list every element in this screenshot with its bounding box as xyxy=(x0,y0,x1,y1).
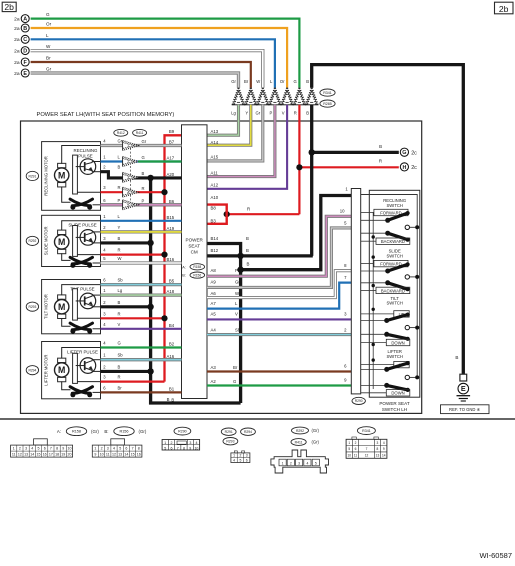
svg-text:16: 16 xyxy=(43,453,47,457)
svg-text:2c: 2c xyxy=(411,150,417,156)
wire Lg from joint 1 to pin A13 xyxy=(207,105,239,135)
common circle xyxy=(405,325,409,329)
svg-text:G: G xyxy=(46,12,50,17)
svg-text:R158: R158 xyxy=(72,430,81,434)
pin 2 wire Y of SLIDE MOTOR xyxy=(101,230,182,233)
wire R branch to terminal H xyxy=(299,166,398,168)
svg-text:W: W xyxy=(46,44,51,49)
wire B to switch pin 1 xyxy=(241,196,352,270)
motor bottom rail xyxy=(62,381,71,389)
svg-text:R292: R292 xyxy=(296,429,304,433)
joint connector R412/R411 ovals xyxy=(114,129,128,136)
svg-text:A20: A20 xyxy=(167,172,175,177)
feed line to DOWN contact xyxy=(361,342,387,344)
pulse sensor bar xyxy=(73,353,78,383)
svg-text:R156: R156 xyxy=(119,430,128,434)
svg-text:5: 5 xyxy=(315,461,317,465)
svg-text:RECLINING MOTOR: RECLINING MOTOR xyxy=(44,156,49,195)
pin 4 wire Gr of RECLINING MOTOR xyxy=(101,144,182,147)
svg-text:9: 9 xyxy=(62,447,64,451)
svg-text:A9: A9 xyxy=(211,280,217,285)
wire B continues to pin A20 xyxy=(151,176,182,179)
svg-text:2: 2 xyxy=(127,160,129,164)
wire W from A6 to switch pin 8 xyxy=(207,271,351,298)
svg-text:3: 3 xyxy=(377,441,379,445)
transistor of SLIDE MOTOR xyxy=(80,230,96,246)
svg-text:16: 16 xyxy=(137,453,141,457)
svg-text:2a: 2a xyxy=(14,71,20,77)
svg-text:H: H xyxy=(402,165,406,171)
commutator symbol xyxy=(70,199,90,206)
contact BACKWARD rect xyxy=(376,238,410,244)
svg-text:G: G xyxy=(294,79,297,84)
svg-text:P: P xyxy=(235,268,238,273)
svg-text:R341: R341 xyxy=(323,91,332,95)
motor top rail xyxy=(62,285,101,296)
ground terminal square xyxy=(460,374,467,381)
lever DOWN xyxy=(361,333,387,335)
pin 6 wire Sb of TILT MOTOR xyxy=(101,283,182,286)
svg-text:3: 3 xyxy=(25,447,27,451)
svg-text:8: 8 xyxy=(56,447,58,451)
R292 housing silhouette xyxy=(271,450,329,473)
svg-text:1: 1 xyxy=(282,461,284,465)
pin 3 wire B of SLIDE MOTOR xyxy=(101,241,151,244)
pin 1 wire Sb of LIFTER MOTOR xyxy=(101,358,182,361)
svg-text:Or: Or xyxy=(46,22,52,27)
svg-text:R291: R291 xyxy=(225,430,233,434)
red loop pins B8 B3 xyxy=(207,205,227,224)
svg-text:B: B xyxy=(306,111,309,116)
svg-text:A11: A11 xyxy=(211,170,219,175)
junction black bus tilt xyxy=(147,304,153,310)
contact UP rect xyxy=(394,361,409,367)
svg-text:7: 7 xyxy=(177,446,179,450)
svg-text:E: E xyxy=(461,384,466,393)
svg-text:4: 4 xyxy=(306,461,308,465)
svg-text:6: 6 xyxy=(246,459,248,463)
pin 1 wire L of RECLINING MOTOR xyxy=(101,160,182,162)
wire L from A7 to switch pin 7 xyxy=(207,283,351,309)
power seat CM box xyxy=(182,125,208,399)
svg-text:7: 7 xyxy=(132,447,134,451)
main box POWER SEAT LH xyxy=(21,121,422,413)
joint connector triangle 4 (reclining) xyxy=(123,187,139,197)
wire Gr from A9 to switch pin 5 xyxy=(207,228,351,288)
svg-text:4: 4 xyxy=(127,191,129,195)
feed line to UP contact xyxy=(361,313,394,315)
rail junction xyxy=(372,255,375,258)
svg-text:10: 10 xyxy=(100,453,104,457)
svg-text:1: 1 xyxy=(164,441,166,445)
svg-text:SWITCH LH: SWITCH LH xyxy=(382,407,407,412)
svg-text:Sb: Sb xyxy=(118,278,124,283)
svg-text:6: 6 xyxy=(355,447,357,451)
svg-text:10: 10 xyxy=(68,447,72,451)
svg-text:10: 10 xyxy=(194,446,198,450)
svg-text:14: 14 xyxy=(30,453,34,457)
svg-text:2b: 2b xyxy=(4,2,14,12)
rail junction xyxy=(372,308,375,311)
svg-text:Lg: Lg xyxy=(231,111,236,116)
svg-text:E: E xyxy=(23,71,27,77)
svg-text:A8: A8 xyxy=(211,268,217,273)
svg-text:V: V xyxy=(118,322,121,327)
svg-text:B9: B9 xyxy=(169,129,175,134)
rail junction xyxy=(372,343,375,346)
page tag 2b top-left xyxy=(2,2,16,12)
rail junction xyxy=(372,358,375,361)
pin 4 wire G of LIFTER MOTOR xyxy=(101,346,182,348)
svg-text:SEAT: SEAT xyxy=(188,244,200,249)
motor bottom rail xyxy=(62,318,71,326)
svg-text:R: R xyxy=(118,375,121,380)
svg-text:13: 13 xyxy=(118,453,122,457)
pin 3 wire R of LIFTER MOTOR xyxy=(101,381,165,383)
svg-text:B:: B: xyxy=(182,274,186,278)
bus junction xyxy=(415,225,419,229)
svg-text:2: 2 xyxy=(355,441,357,445)
connector label R293 (oval) xyxy=(26,302,38,311)
svg-text:4: 4 xyxy=(233,459,235,463)
pin B12 wire B to vertical xyxy=(207,254,313,257)
svg-text:SWITCH: SWITCH xyxy=(386,254,403,259)
svg-text:A:: A: xyxy=(57,429,61,434)
switch common bus from pin 1 xyxy=(361,195,418,379)
svg-text:FORWARD: FORWARD xyxy=(380,262,401,267)
connector label R290 (oval) xyxy=(352,397,365,404)
svg-text:A5: A5 xyxy=(211,312,217,317)
svg-text:12: 12 xyxy=(112,453,116,457)
terminal C (2a) xyxy=(14,35,29,43)
svg-text:V: V xyxy=(235,312,238,317)
svg-text:POWER SEAT LH(WITH SEAT POSITI: POWER SEAT LH(WITH SEAT POSITION MEMORY) xyxy=(37,112,175,118)
joint connector triangle 4 xyxy=(269,88,281,105)
svg-text:19: 19 xyxy=(61,453,65,457)
svg-text:SWITCH: SWITCH xyxy=(386,203,403,208)
svg-text:B: B xyxy=(247,262,250,267)
svg-text:REF. TO GND ④: REF. TO GND ④ xyxy=(449,407,481,412)
svg-text:R411: R411 xyxy=(136,131,144,135)
svg-text:R412: R412 xyxy=(117,131,125,135)
svg-text:SWITCH: SWITCH xyxy=(386,354,403,359)
svg-text:B1: B1 xyxy=(169,387,175,392)
svg-text:M: M xyxy=(58,237,65,247)
svg-text:A: A xyxy=(23,17,27,23)
svg-text:15: 15 xyxy=(37,453,41,457)
svg-text:FORWARD: FORWARD xyxy=(380,210,401,215)
svg-text:2: 2 xyxy=(101,447,103,451)
pin B14 wire B xyxy=(207,244,241,404)
svg-text:14: 14 xyxy=(124,453,128,457)
svg-text:B:: B: xyxy=(104,429,108,434)
svg-text:8: 8 xyxy=(183,446,185,450)
svg-text:4: 4 xyxy=(113,447,115,451)
svg-text:R285: R285 xyxy=(323,102,332,106)
svg-text:WI-60587: WI-60587 xyxy=(479,551,512,560)
junction red at H branch xyxy=(296,164,302,170)
svg-text:(Gr): (Gr) xyxy=(91,429,99,434)
connector label R294 (oval) xyxy=(26,366,38,375)
svg-text:4: 4 xyxy=(196,441,198,445)
svg-text:1: 1 xyxy=(127,144,129,148)
joint connector triangle 2 (reclining) xyxy=(123,157,139,167)
motor top rail xyxy=(62,146,101,164)
pin 5 wire W of SLIDE MOTOR xyxy=(101,261,182,264)
svg-text:BACKWARD: BACKWARD xyxy=(381,239,405,244)
wire G from joint 2 to pin A17 xyxy=(138,160,181,162)
svg-text:8: 8 xyxy=(377,447,379,451)
svg-text:RECLINING: RECLINING xyxy=(74,148,98,153)
lever BACKWARD xyxy=(361,232,388,234)
svg-text:3: 3 xyxy=(107,447,109,451)
svg-text:A2: A2 xyxy=(211,379,217,384)
svg-text:W: W xyxy=(118,256,122,261)
svg-text:5: 5 xyxy=(164,446,166,450)
contact DOWN rect xyxy=(386,339,410,345)
svg-text:2a: 2a xyxy=(14,26,20,32)
contact FORWARD rect xyxy=(374,209,408,215)
terminal H (2c) xyxy=(400,163,417,171)
bus junction xyxy=(415,326,419,330)
svg-text:G: G xyxy=(142,155,145,160)
svg-text:5: 5 xyxy=(348,447,350,451)
feed line to FORWARD contact xyxy=(361,263,374,265)
connector R341 legend xyxy=(357,427,375,435)
pin 4 wire R of SLIDE MOTOR xyxy=(101,254,165,256)
svg-text:3: 3 xyxy=(246,454,248,458)
pin 2 wire B of TILT MOTOR xyxy=(101,305,151,308)
svg-text:R: R xyxy=(247,206,250,211)
svg-text:10: 10 xyxy=(340,209,345,214)
wire Br from A3 to switch pin 6 xyxy=(207,370,351,372)
svg-text:LIFTER MOTOR: LIFTER MOTOR xyxy=(44,355,49,386)
commutator symbol xyxy=(70,257,90,264)
svg-text:B2: B2 xyxy=(169,342,175,347)
svg-text:R: R xyxy=(379,159,382,164)
connector label R291 (oval) xyxy=(26,171,38,180)
power seat switch box xyxy=(369,190,420,397)
svg-text:B: B xyxy=(167,397,170,402)
motor top rail xyxy=(62,348,101,359)
svg-text:B14: B14 xyxy=(211,236,219,241)
joint connector triangle 1 xyxy=(233,88,245,105)
svg-text:B15: B15 xyxy=(167,215,175,220)
svg-text:5: 5 xyxy=(119,447,121,451)
junction pin1 branch xyxy=(237,267,243,273)
pin 6 wire Br of LIFTER MOTOR xyxy=(101,391,182,393)
svg-text:A16: A16 xyxy=(167,354,175,359)
svg-text:R292: R292 xyxy=(28,239,36,243)
svg-text:R293: R293 xyxy=(28,305,36,309)
red bus B9 down left side xyxy=(165,135,182,381)
svg-text:D: D xyxy=(23,49,27,55)
svg-text:R: R xyxy=(294,111,297,116)
pin 1 wire L of SLIDE MOTOR xyxy=(101,220,182,222)
svg-text:4: 4 xyxy=(31,447,33,451)
pulse sensor bar xyxy=(73,226,78,257)
feed line to BACKWARD contact xyxy=(361,240,376,242)
lever FORWARD xyxy=(361,270,388,272)
bottom B bus of motors xyxy=(151,178,241,403)
feed line to UP contact xyxy=(361,364,394,366)
svg-text:Gr: Gr xyxy=(256,111,261,116)
pulse bar output to pin xyxy=(77,191,100,193)
svg-text:3: 3 xyxy=(127,176,129,180)
svg-text:SLIDE MOTOR: SLIDE MOTOR xyxy=(44,227,49,256)
svg-text:2: 2 xyxy=(19,447,21,451)
svg-text:R294: R294 xyxy=(244,430,252,434)
svg-text:B: B xyxy=(246,248,249,253)
svg-text:A12: A12 xyxy=(211,183,219,188)
svg-text:M: M xyxy=(58,302,65,312)
svg-text:1: 1 xyxy=(233,454,235,458)
connector label R285 (oval) xyxy=(320,100,335,107)
pin 1 wire Lg of TILT MOTOR xyxy=(101,293,182,296)
svg-text:12: 12 xyxy=(18,453,22,457)
RECLINING MOTOR block xyxy=(42,142,101,211)
svg-text:Br: Br xyxy=(118,385,123,390)
terminal E (2a) xyxy=(14,69,29,77)
common circle xyxy=(405,225,409,229)
svg-text:15: 15 xyxy=(131,453,135,457)
wire Br from terminal F to joint connector xyxy=(31,62,251,88)
switch connector strip R290 xyxy=(351,189,360,394)
motor M of RECLINING MOTOR xyxy=(58,163,66,167)
svg-text:A10: A10 xyxy=(211,195,219,200)
svg-text:12: 12 xyxy=(365,453,369,457)
svg-text:Br: Br xyxy=(244,79,249,84)
svg-text:(Gr): (Gr) xyxy=(312,440,320,445)
svg-text:V: V xyxy=(282,111,285,116)
terminal D (2a) xyxy=(14,47,29,55)
page tag 2b top-right xyxy=(495,2,514,14)
dashed link between joints xyxy=(129,148,131,202)
motor M of LIFTER MOTOR xyxy=(58,358,66,362)
svg-text:18: 18 xyxy=(55,453,59,457)
svg-text:13: 13 xyxy=(376,453,380,457)
svg-text:(Gr): (Gr) xyxy=(312,428,320,433)
wire Or from terminal B to joint connector xyxy=(31,28,288,88)
pulse sensor bar xyxy=(73,289,78,320)
wire V from joint 5 to pin A12 xyxy=(207,105,287,189)
pin 3 wire R of TILT MOTOR xyxy=(101,317,165,319)
svg-text:11: 11 xyxy=(106,453,110,457)
svg-text:R156: R156 xyxy=(193,273,201,277)
joint connector triangle 3 (reclining) xyxy=(123,173,139,183)
svg-text:9: 9 xyxy=(189,446,191,450)
svg-text:R290: R290 xyxy=(355,399,363,403)
svg-text:Br: Br xyxy=(46,56,51,61)
svg-text:11: 11 xyxy=(12,453,16,457)
svg-text:Lg: Lg xyxy=(118,288,123,293)
svg-text:9: 9 xyxy=(94,453,96,457)
wire L from terminal C to joint connector xyxy=(31,39,275,88)
motor bottom rail xyxy=(62,187,71,203)
svg-text:BACKWARD: BACKWARD xyxy=(381,288,405,293)
svg-text:B: B xyxy=(118,236,121,241)
svg-text:5: 5 xyxy=(239,459,241,463)
feed line to FORWARD contact xyxy=(361,212,374,214)
common circle xyxy=(405,375,409,379)
svg-text:1: 1 xyxy=(348,441,350,445)
svg-text:1: 1 xyxy=(94,447,96,451)
joint connector triangle 1 (reclining) xyxy=(123,141,139,151)
svg-text:B8: B8 xyxy=(211,206,217,211)
pulse bar output to pin xyxy=(77,254,100,256)
svg-text:A6: A6 xyxy=(211,291,217,296)
bus junction xyxy=(415,375,419,379)
pin 3 wire R of RECLINING MOTOR xyxy=(101,191,165,193)
svg-text:2a: 2a xyxy=(14,37,20,43)
svg-text:R: R xyxy=(118,185,121,190)
connector label R341 (oval) xyxy=(320,89,335,96)
lever BACKWARD xyxy=(361,282,388,284)
svg-text:20: 20 xyxy=(68,453,72,457)
svg-text:Sb: Sb xyxy=(118,353,124,358)
LIFTER MOTOR block xyxy=(42,342,101,399)
svg-text:7: 7 xyxy=(366,447,368,451)
wire B branch to terminal G xyxy=(312,151,399,154)
svg-text:14: 14 xyxy=(382,453,386,457)
joint connector triangle 7 xyxy=(306,88,318,105)
svg-text:TILT MOTOR: TILT MOTOR xyxy=(44,294,49,319)
wire P from joint 4 to pin A11 xyxy=(207,105,275,177)
motor M of TILT MOTOR xyxy=(58,295,66,299)
svg-text:B: B xyxy=(118,364,121,369)
ground terminal E circle xyxy=(458,383,469,394)
wire V from A5 to switch pin 3 xyxy=(207,318,351,320)
svg-text:10: 10 xyxy=(347,453,351,457)
transistor of RECLINING MOTOR xyxy=(80,159,96,175)
wire Gr from terminal E to joint connector xyxy=(31,73,239,88)
svg-text:B: B xyxy=(142,171,145,176)
svg-text:B: B xyxy=(23,26,27,32)
svg-text:3: 3 xyxy=(298,461,300,465)
svg-text:A4: A4 xyxy=(211,327,217,332)
svg-text:17: 17 xyxy=(49,453,53,457)
connector R290 legend xyxy=(174,427,191,435)
svg-text:Y: Y xyxy=(118,225,121,230)
wire R to B8/B3 loop xyxy=(227,213,300,215)
svg-text:B6: B6 xyxy=(169,199,175,204)
svg-text:POWER SEAT: POWER SEAT xyxy=(379,401,409,406)
svg-text:CM: CM xyxy=(191,250,198,255)
ground hatch symbol xyxy=(457,395,471,397)
svg-text:R: R xyxy=(118,248,121,253)
svg-text:B4: B4 xyxy=(169,323,175,328)
svg-text:2: 2 xyxy=(239,454,241,458)
svg-text:B12: B12 xyxy=(211,248,219,253)
svg-text:6: 6 xyxy=(125,447,127,451)
junction black bus lifter xyxy=(147,368,153,374)
lever FORWARD xyxy=(361,219,388,221)
svg-text:5: 5 xyxy=(38,447,40,451)
wire R from joint 6 down right side xyxy=(298,105,300,214)
junction red bus slide xyxy=(161,252,167,258)
svg-text:B: B xyxy=(379,144,382,149)
joint connector triangle 5 (reclining) xyxy=(123,200,139,210)
svg-text:9: 9 xyxy=(383,447,385,451)
svg-text:Gr: Gr xyxy=(46,67,52,72)
commutator symbol xyxy=(70,387,90,394)
svg-text:B: B xyxy=(171,397,174,402)
svg-text:P: P xyxy=(118,198,121,203)
bus junction xyxy=(415,275,419,279)
joint connector triangle 2 xyxy=(245,88,257,105)
contact DOWN rect xyxy=(386,390,410,396)
motor M of SLIDE MOTOR xyxy=(58,230,66,234)
